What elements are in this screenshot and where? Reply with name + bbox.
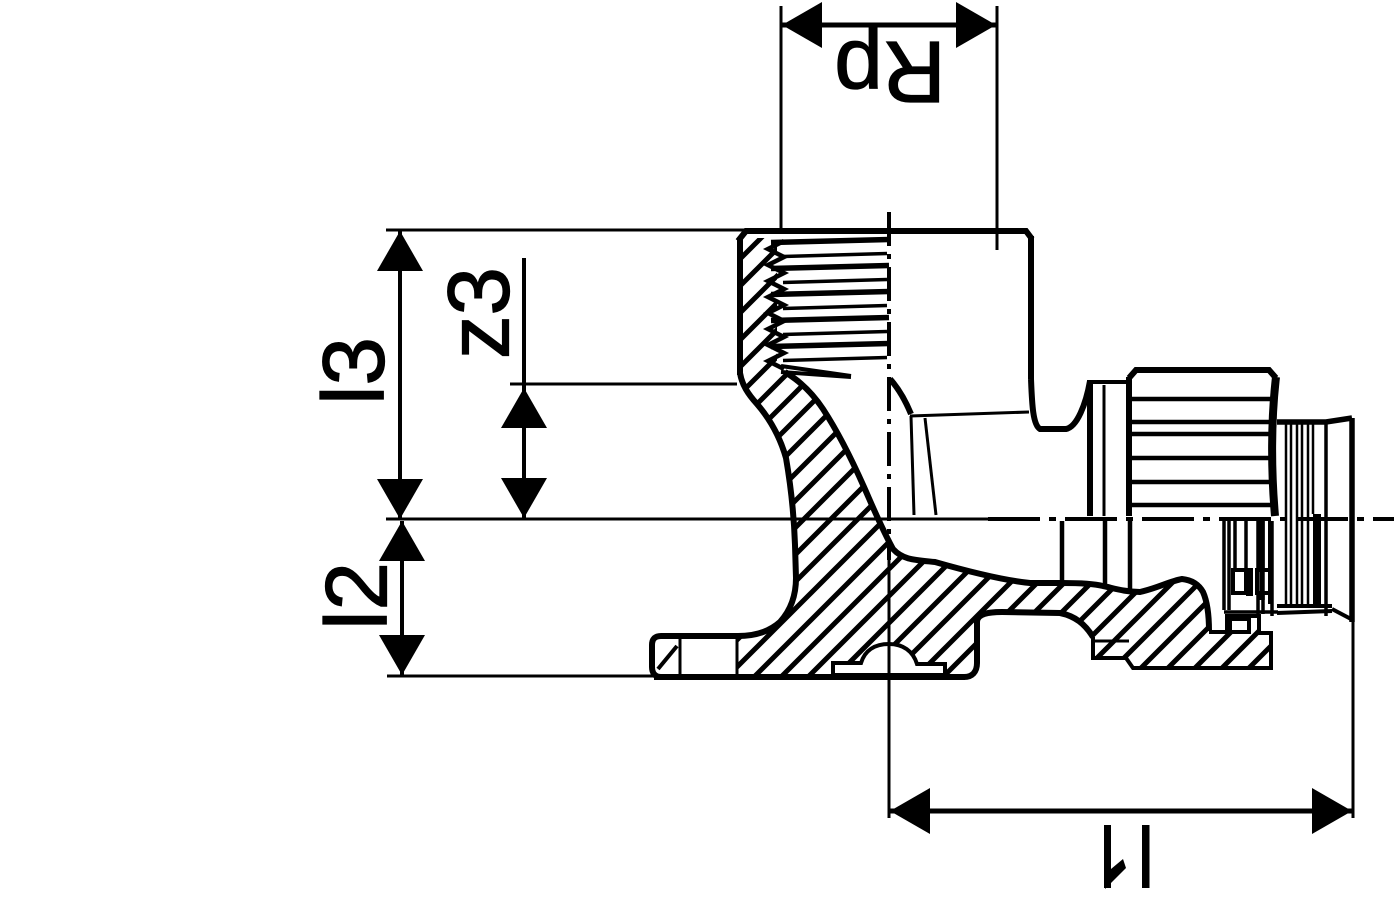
svg-text:Rp: Rp	[834, 23, 945, 120]
svg-text:z3: z3	[431, 267, 528, 359]
svg-text:l3: l3	[306, 337, 403, 405]
svg-text:l2: l2	[309, 562, 406, 630]
